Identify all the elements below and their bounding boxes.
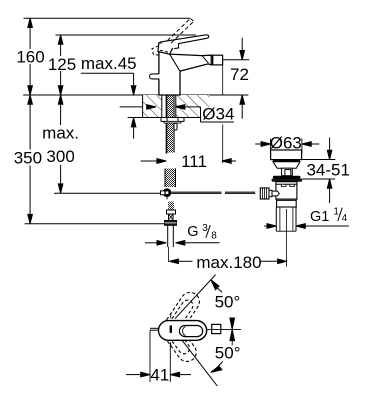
dimension G 3/8 arrows [145,241,220,246]
label 50 bottom with arrow [211,344,241,373]
label 50 top with arrow [211,280,240,312]
svg-text:72: 72 [230,65,249,84]
svg-text:160: 160 [16,48,44,67]
faucet shank through deck (threaded) [162,95,176,154]
countertop top reference line [23,94,248,96]
countertop slab with hatch [128,95,210,118]
hose lower and G3/8 fitting [165,202,177,263]
dimension max300 line [58,95,63,193]
dimension 41 [126,330,191,384]
label Ø34 with leader [120,104,235,123]
side tab (pop-up rod knob) [150,74,159,79]
rod clamp knob [260,188,279,199]
label max.45 with leader [81,54,137,139]
50 degree leader lines [175,275,217,386]
waste flange [272,176,303,182]
top view faucet body capsule [159,314,207,347]
label max. 300 [42,124,81,167]
lever handle [160,35,209,49]
svg-text:111: 111 [181,152,207,171]
svg-text:50°: 50° [215,344,241,363]
angular span arrows (hourglass) [230,318,235,346]
waste plug [271,150,302,176]
dimension 111 [141,152,237,171]
svg-text:G1: G1 [310,209,329,225]
reference line top of raised lever [24,17,191,19]
svg-text:4: 4 [342,213,348,224]
svg-text:Ø34: Ø34 [202,104,234,123]
svg-text:1: 1 [333,206,339,217]
svg-text:41: 41 [150,365,169,384]
dimension G1 1/4 arrows [264,224,349,229]
waste tailpipe G1 1/4 [276,207,296,267]
label 125 [48,55,77,74]
reference line 350 bottom [25,223,166,225]
dashed raised lever position [167,19,194,44]
dimension 350 line [28,95,33,224]
faucet body side view [159,52,211,95]
svg-text:34-51: 34-51 [306,160,349,179]
spout outlet extension line [222,65,224,163]
svg-text:max.: max. [42,124,79,143]
svg-text:G: G [187,224,198,240]
aerator [211,55,222,65]
svg-text:8: 8 [211,231,217,242]
Ø63 dimension [255,134,319,154]
dashed lowered lever wedge [152,46,171,55]
label 350 [14,148,42,167]
label G1 1/4 [310,206,348,225]
svg-text:300: 300 [46,147,74,166]
top view rod stub [150,328,159,330]
svg-text:max.180: max.180 [196,253,261,272]
top view aerator square [206,324,241,333]
dimension 34-51 [302,138,350,203]
clip on shank [174,123,177,130]
flexible hose upper [165,169,176,188]
dimension 72 [223,38,250,119]
top view: dashed rotated lever positions [162,289,203,365]
dimension 125 line [58,35,63,95]
waste body [276,182,297,200]
mounting nut below deck [161,118,184,124]
svg-text:350: 350 [14,148,42,167]
dimension max.180 [169,253,287,272]
label 160 [16,48,45,67]
dimension 160 line [28,18,33,95]
label G 3/8 [187,223,217,242]
handle base [158,43,175,55]
reference line max300 bottom [54,192,163,194]
svg-text:50°: 50° [215,293,241,312]
elbow ball joint [161,188,172,199]
pop-up rod [171,192,255,193]
svg-text:max.45: max.45 [81,54,137,73]
waste nut section [277,199,297,207]
svg-text:125: 125 [48,55,76,74]
white cutout for Ø34 label over deck [201,107,211,117]
reference line top of lever [56,34,197,36]
